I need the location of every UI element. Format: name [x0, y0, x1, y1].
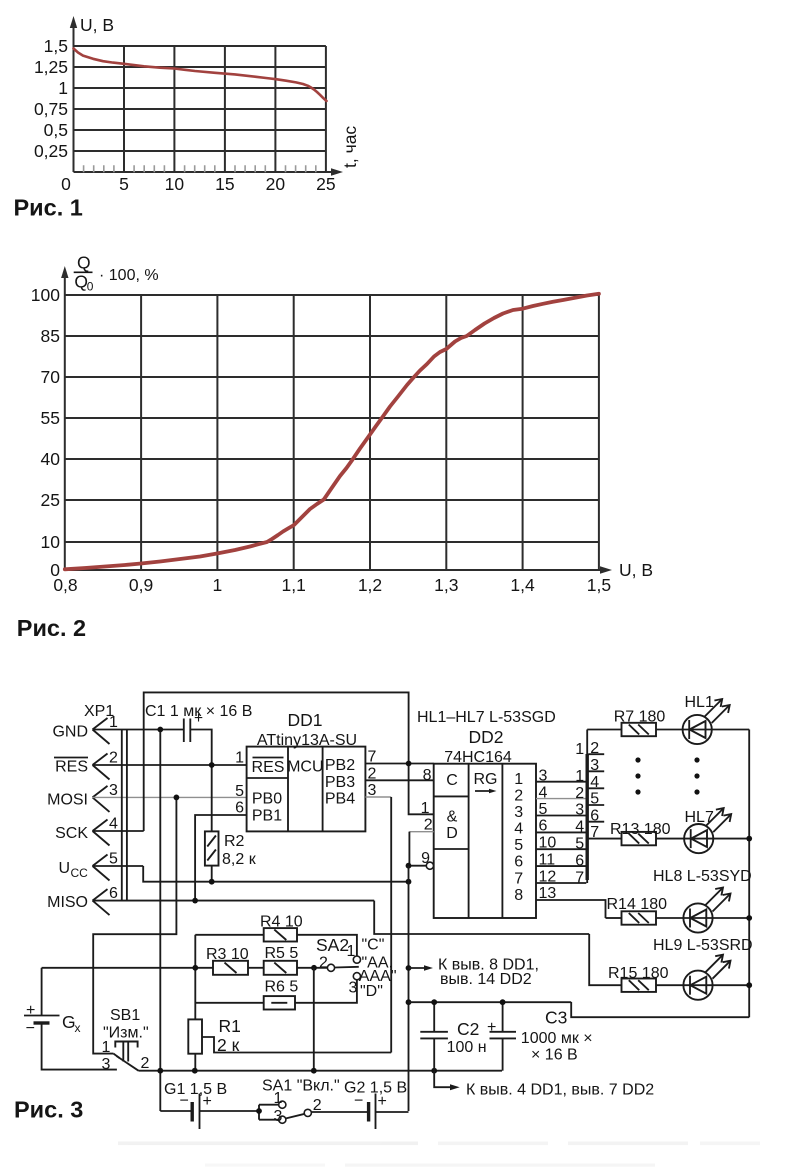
- svg-text:7: 7: [575, 870, 584, 887]
- svg-text:ATtiny13A-SU: ATtiny13A-SU: [257, 732, 357, 749]
- svg-text:1,1: 1,1: [282, 575, 306, 595]
- svg-text:Q: Q: [77, 253, 91, 273]
- svg-text:t, час: t, час: [340, 126, 360, 168]
- svg-text:3: 3: [590, 757, 599, 774]
- svg-text:2: 2: [575, 785, 584, 802]
- svg-text:HL8 L-53SYD: HL8 L-53SYD: [653, 868, 752, 885]
- svg-text:Рис. 3: Рис. 3: [14, 1097, 83, 1123]
- svg-text:2: 2: [141, 1055, 150, 1072]
- svg-text:G1 1,5 В: G1 1,5 В: [164, 1081, 227, 1098]
- svg-text:4: 4: [514, 821, 523, 838]
- svg-text:GND: GND: [52, 724, 88, 741]
- svg-text:К выв. 4 DD1, выв. 7 DD2: К выв. 4 DD1, выв. 7 DD2: [466, 1082, 654, 1099]
- svg-text:выв. 14 DD2: выв. 14 DD2: [440, 971, 532, 988]
- svg-text:100: 100: [31, 285, 60, 305]
- svg-text:0,25: 0,25: [34, 141, 68, 161]
- svg-text:R4 10: R4 10: [260, 914, 303, 931]
- svg-text:RG: RG: [474, 771, 498, 788]
- svg-text:4: 4: [575, 819, 584, 836]
- svg-text:25: 25: [41, 490, 60, 510]
- svg-text:55: 55: [41, 408, 60, 428]
- svg-text:MCU: MCU: [287, 759, 323, 776]
- svg-text:R2: R2: [224, 833, 245, 850]
- svg-text:6: 6: [109, 885, 118, 902]
- svg-text:8,2 к: 8,2 к: [222, 851, 257, 868]
- svg-text:−: −: [180, 1093, 189, 1110]
- svg-text:1: 1: [421, 800, 430, 817]
- svg-text:C: C: [446, 772, 458, 789]
- svg-text:1000 мк ×: 1000 мк ×: [521, 1030, 593, 1047]
- svg-text:6: 6: [575, 853, 584, 870]
- svg-text:3: 3: [575, 802, 584, 819]
- svg-text:0: 0: [87, 280, 94, 294]
- svg-text:HL7: HL7: [685, 809, 714, 826]
- svg-text:2: 2: [590, 740, 599, 757]
- svg-text:−: −: [354, 1093, 363, 1110]
- svg-text:6: 6: [235, 800, 244, 817]
- svg-text:DD2: DD2: [468, 727, 503, 747]
- svg-text:0,9: 0,9: [129, 575, 153, 595]
- svg-text:R15 180: R15 180: [608, 965, 669, 982]
- svg-text:1,5: 1,5: [587, 575, 611, 595]
- svg-text:1: 1: [274, 1090, 283, 1107]
- svg-text:HL1–HL7 L-53SGD: HL1–HL7 L-53SGD: [417, 709, 556, 726]
- svg-text:2 к: 2 к: [217, 1035, 240, 1055]
- svg-text:R14 180: R14 180: [607, 896, 668, 913]
- svg-text:R13 180: R13 180: [610, 821, 671, 838]
- svg-text:R6 5: R6 5: [265, 979, 299, 996]
- svg-text:RES: RES: [55, 759, 88, 776]
- svg-text:1: 1: [213, 575, 223, 595]
- svg-text:100 н: 100 н: [447, 1039, 487, 1056]
- svg-text:Рис. 1: Рис. 1: [14, 195, 83, 221]
- svg-text:× 16 В: × 16 В: [531, 1047, 578, 1064]
- svg-text:+: +: [378, 1093, 387, 1110]
- svg-text:3: 3: [274, 1108, 283, 1125]
- svg-text:R3 10: R3 10: [206, 946, 249, 963]
- svg-text:U, В: U, В: [619, 560, 653, 580]
- svg-text:x: x: [75, 1021, 81, 1035]
- svg-text:XP1: XP1: [84, 703, 114, 720]
- svg-text:MOSI: MOSI: [47, 792, 88, 809]
- svg-text:20: 20: [266, 174, 286, 194]
- svg-text:70: 70: [41, 367, 61, 387]
- svg-text:+: +: [26, 1002, 35, 1019]
- svg-text:C3: C3: [545, 1008, 567, 1028]
- svg-text:6: 6: [514, 854, 523, 871]
- svg-text:8: 8: [514, 887, 523, 904]
- svg-text:7: 7: [514, 871, 523, 888]
- svg-text:1: 1: [514, 771, 523, 788]
- svg-text:PB1: PB1: [252, 808, 282, 825]
- svg-text:5: 5: [119, 174, 129, 194]
- svg-text:PB4: PB4: [325, 791, 355, 808]
- svg-text:MISO: MISO: [47, 894, 88, 911]
- svg-text:2: 2: [514, 788, 523, 805]
- svg-text:5: 5: [109, 851, 118, 868]
- svg-text:D: D: [446, 825, 458, 842]
- svg-text:RES: RES: [252, 759, 285, 776]
- svg-text:1: 1: [347, 943, 356, 960]
- svg-text:Рис. 2: Рис. 2: [17, 615, 86, 641]
- svg-text:40: 40: [41, 449, 61, 469]
- svg-text:HL9 L-53SRD: HL9 L-53SRD: [653, 937, 753, 954]
- svg-text:0: 0: [61, 174, 71, 194]
- svg-text:25: 25: [316, 174, 335, 194]
- svg-text:1: 1: [235, 750, 244, 767]
- svg-text:5: 5: [235, 783, 244, 800]
- svg-text:1,5: 1,5: [44, 36, 68, 56]
- svg-text:0,5: 0,5: [44, 120, 68, 140]
- svg-text:5: 5: [575, 836, 584, 853]
- svg-text:1: 1: [575, 768, 584, 785]
- svg-text:SCK: SCK: [55, 825, 88, 842]
- svg-text:1: 1: [102, 1039, 111, 1056]
- svg-text:DD1: DD1: [287, 710, 322, 730]
- svg-text:R5 5: R5 5: [265, 945, 299, 962]
- svg-text:+: +: [487, 1019, 496, 1036]
- svg-text:4: 4: [109, 816, 118, 833]
- svg-text:−: −: [26, 1020, 35, 1037]
- svg-text:2: 2: [109, 750, 118, 767]
- svg-text:1,4: 1,4: [510, 575, 535, 595]
- svg-text:0,75: 0,75: [34, 99, 68, 119]
- svg-text:PB2: PB2: [325, 757, 355, 774]
- svg-text:SA2: SA2: [316, 935, 349, 955]
- svg-text:4: 4: [590, 774, 599, 791]
- svg-text:8: 8: [423, 767, 432, 784]
- svg-text:3: 3: [349, 980, 358, 997]
- svg-text:6: 6: [590, 808, 599, 825]
- svg-text:1: 1: [575, 741, 584, 758]
- svg-text:3: 3: [102, 1056, 111, 1073]
- svg-text:1: 1: [58, 78, 68, 98]
- svg-text:C2: C2: [457, 1019, 479, 1039]
- svg-text:3: 3: [514, 804, 523, 821]
- svg-text:+: +: [194, 710, 203, 727]
- svg-text:"D": "D": [360, 983, 383, 1000]
- svg-text:SB1: SB1: [110, 1007, 140, 1024]
- svg-text:· 100, %: · 100, %: [99, 267, 159, 284]
- svg-text:+: +: [203, 1093, 212, 1110]
- svg-text:15: 15: [215, 174, 234, 194]
- svg-text:CC: CC: [71, 866, 89, 880]
- svg-text:5: 5: [514, 837, 523, 854]
- svg-text:5: 5: [590, 791, 599, 808]
- svg-text:PB0: PB0: [252, 791, 282, 808]
- svg-text:10: 10: [41, 532, 61, 552]
- svg-text:U: U: [58, 860, 70, 877]
- svg-text:85: 85: [41, 326, 60, 346]
- svg-text:PB3: PB3: [325, 774, 355, 791]
- svg-text:1,2: 1,2: [358, 575, 382, 595]
- svg-text:74HC164: 74HC164: [444, 749, 512, 766]
- svg-text:10: 10: [165, 174, 185, 194]
- svg-text:1,25: 1,25: [34, 57, 68, 77]
- svg-text:HL1: HL1: [685, 694, 714, 711]
- svg-text:R1: R1: [219, 1016, 241, 1036]
- svg-text:0,8: 0,8: [53, 575, 77, 595]
- svg-text:2: 2: [319, 955, 328, 972]
- svg-text:R7 180: R7 180: [614, 709, 666, 726]
- svg-text:U, В: U, В: [80, 15, 114, 35]
- svg-text:3: 3: [109, 782, 118, 799]
- svg-text:&: &: [447, 809, 458, 826]
- svg-text:1,3: 1,3: [434, 575, 458, 595]
- svg-text:"C": "C": [362, 937, 385, 954]
